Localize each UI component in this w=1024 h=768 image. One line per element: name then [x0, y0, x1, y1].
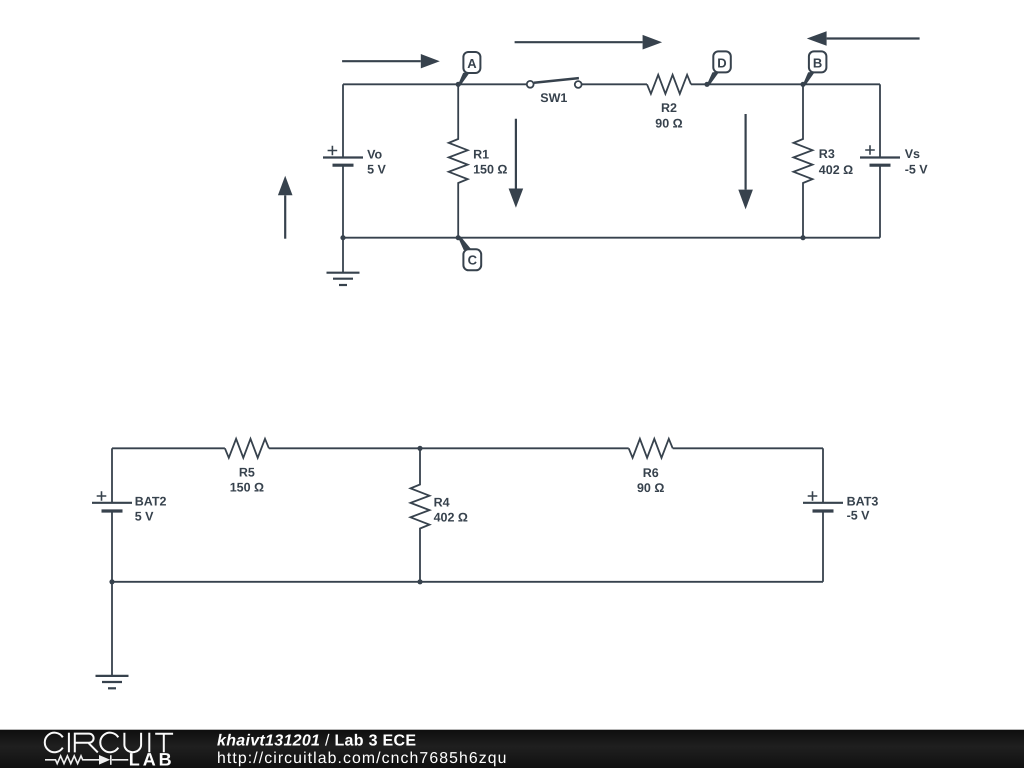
- svg-text:R5: R5: [239, 466, 255, 480]
- junction dot left bottom: [340, 235, 345, 240]
- svg-text:-5 V: -5 V: [847, 509, 871, 523]
- current arrow 2 (top-middle, right): [515, 35, 663, 50]
- wire right vertical upper (to BAT3): [822, 448, 824, 503]
- battery Vs: [860, 145, 900, 165]
- svg-text:R3: R3: [819, 147, 835, 161]
- svg-text:-5 V: -5 V: [905, 163, 929, 177]
- resistor R2: [647, 75, 691, 94]
- wire bottom circuit top-right: [673, 447, 823, 449]
- svg-text:5 V: 5 V: [367, 163, 386, 177]
- logo CIRCUIT (drawn thin strokes): [45, 733, 173, 753]
- wire switch to R2: [582, 83, 647, 85]
- junction dot R3 bottom: [800, 235, 805, 240]
- wire R2 to top-right corner: [691, 83, 880, 85]
- wire left vertical upper (to BAT2): [111, 448, 113, 503]
- svg-text:LAB: LAB: [129, 749, 175, 768]
- current arrow 6 (up, left of Vo): [278, 176, 293, 239]
- node C callout: [458, 237, 481, 271]
- ground (bottom circuit): [96, 676, 129, 688]
- svg-text:150 Ω: 150 Ω: [230, 481, 264, 495]
- svg-text:402 Ω: 402 Ω: [819, 163, 853, 177]
- wire right vertical lower (Vs to bottom): [879, 165, 881, 238]
- wire right vertical lower: [822, 511, 824, 582]
- svg-text:R4: R4: [434, 496, 450, 510]
- switch SW1: [527, 78, 582, 88]
- current arrow 3 (top-right, left): [807, 31, 920, 46]
- junction dot R4 bottom: [417, 579, 422, 584]
- svg-text:402 Ω: 402 Ω: [434, 511, 468, 525]
- junction dot node A: [456, 82, 461, 87]
- svg-text:D: D: [717, 55, 726, 70]
- wire right vertical upper (to Vs): [879, 84, 881, 157]
- svg-text:Vs: Vs: [905, 147, 920, 161]
- svg-text:150 Ω: 150 Ω: [473, 163, 507, 177]
- resistor R1: [449, 84, 468, 237]
- junction dot node C: [456, 235, 461, 240]
- junction dot R4 top: [417, 446, 422, 451]
- wire bottom circuit top-left: [112, 447, 225, 449]
- logo resistor-diode line: [45, 755, 128, 765]
- svg-text:B: B: [813, 55, 822, 70]
- wire ground stub (bottom circuit): [111, 582, 113, 676]
- svg-text:SW1: SW1: [540, 91, 567, 105]
- battery BAT3: [803, 491, 843, 511]
- wire top-left horizontal (node A segment to switch): [343, 83, 527, 85]
- svg-text:http://circuitlab.com/cnch7685: http://circuitlab.com/cnch7685h6zqu: [217, 750, 508, 767]
- svg-text:90 Ω: 90 Ω: [655, 116, 682, 130]
- ground (top circuit): [327, 273, 360, 285]
- svg-text:C: C: [468, 253, 478, 268]
- svg-text:5 V: 5 V: [135, 510, 154, 524]
- node B callout: [803, 51, 826, 85]
- wire left vertical upper (to Vo): [342, 84, 344, 157]
- junction dot node B: [800, 82, 805, 87]
- svg-text:BAT2: BAT2: [135, 495, 167, 509]
- svg-text:R1: R1: [473, 148, 489, 162]
- svg-text:A: A: [467, 56, 477, 71]
- battery Vo: [323, 146, 363, 166]
- current arrow 1 (top-left, right): [342, 54, 440, 68]
- wire bottom circuit top-middle: [269, 447, 629, 449]
- wire left vertical lower (Vo to bottom): [342, 165, 344, 238]
- footer bar: [0, 730, 1024, 768]
- current arrow 5 (down, R3 side): [738, 114, 753, 209]
- svg-text:R2: R2: [661, 101, 677, 115]
- current arrow 4 (down, R1 side): [509, 119, 524, 208]
- svg-text:90 Ω: 90 Ω: [637, 481, 664, 495]
- wire left vertical lower: [111, 511, 113, 582]
- resistor R4: [411, 448, 430, 582]
- junction dot ground tee: [109, 579, 114, 584]
- wire bottom horizontal: [343, 237, 880, 239]
- resistor R5: [225, 439, 269, 458]
- svg-text:Vo: Vo: [367, 148, 382, 162]
- resistor R3: [794, 84, 813, 237]
- svg-text:BAT3: BAT3: [847, 495, 879, 509]
- resistor R6: [629, 439, 673, 458]
- svg-text:R6: R6: [643, 466, 659, 480]
- wire bottom horizontal: [112, 581, 823, 583]
- svg-text:khaivt131201 / Lab 3 ECE: khaivt131201 / Lab 3 ECE: [217, 733, 416, 750]
- junction dot node D: [704, 82, 709, 87]
- node D callout: [707, 51, 731, 85]
- node A callout: [458, 52, 480, 86]
- wire ground stub: [342, 238, 344, 273]
- battery BAT2: [92, 491, 132, 511]
